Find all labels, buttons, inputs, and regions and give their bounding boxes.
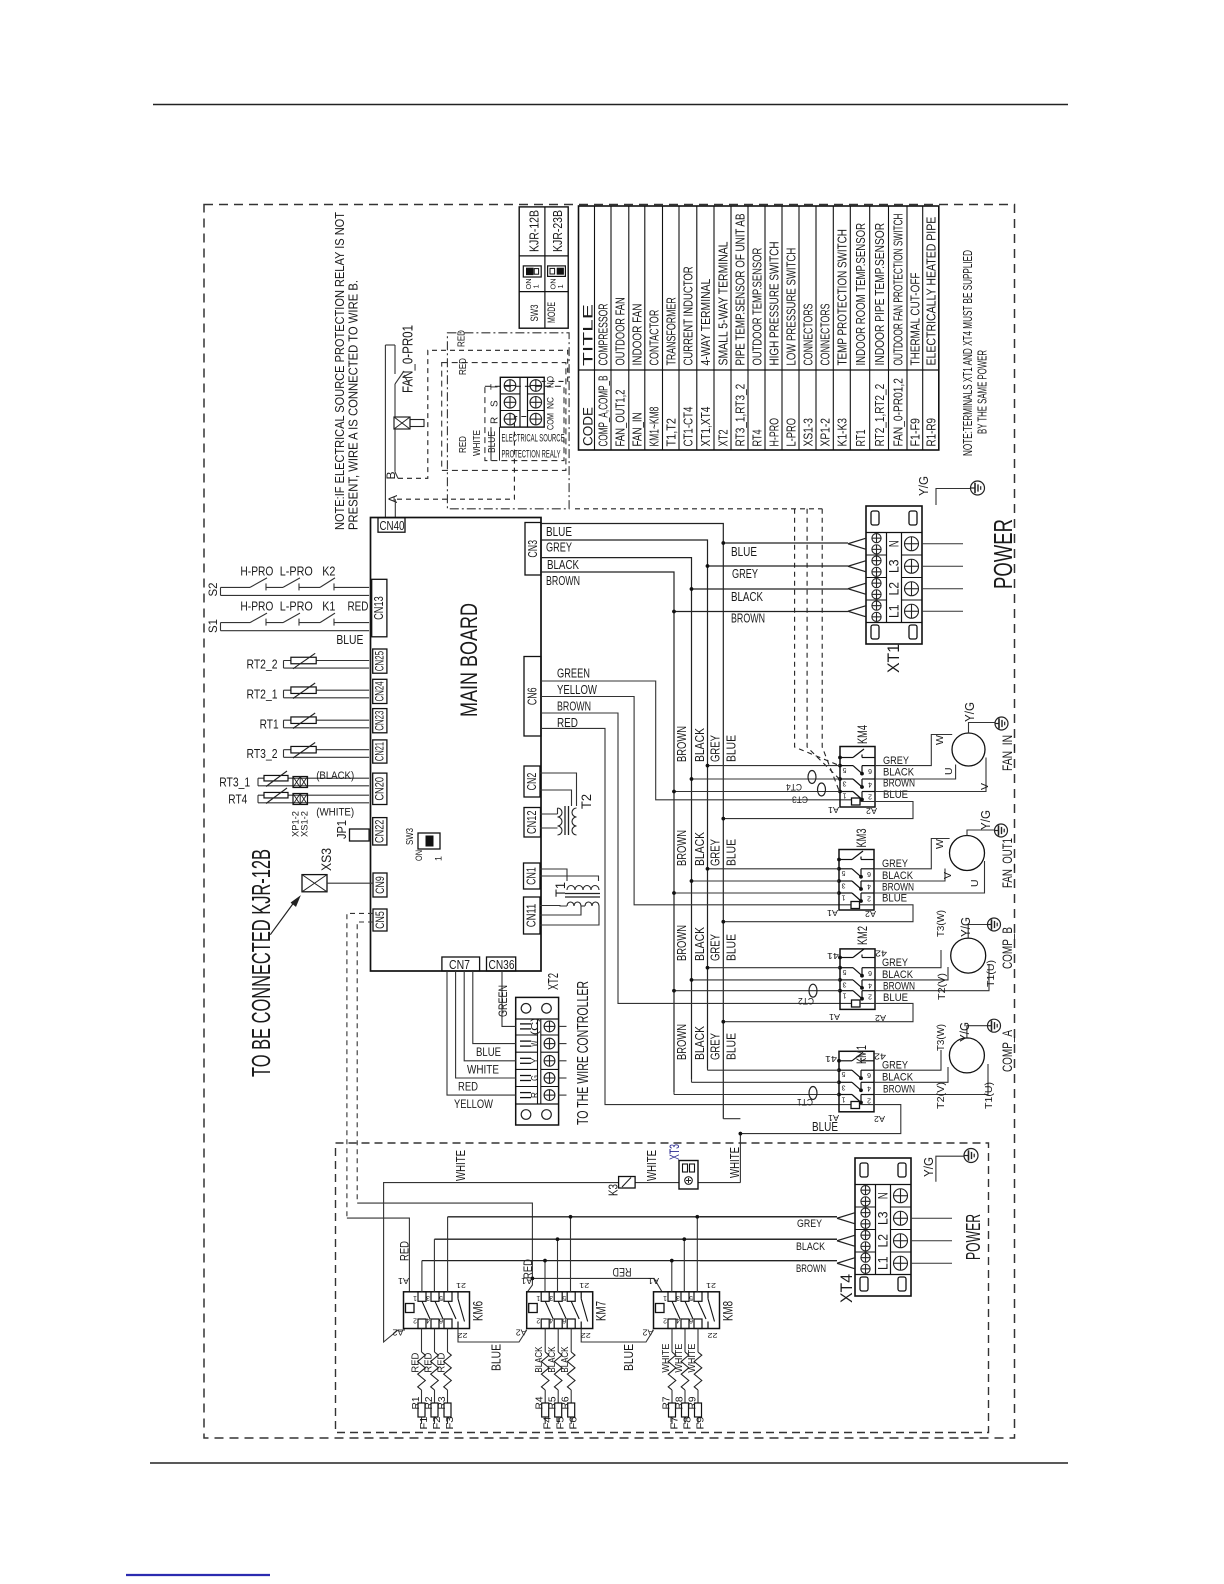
svg-text:2: 2 [868,993,872,1000]
svg-text:F7: F7 [670,1416,681,1429]
wire BROWN bus to KM1 with CT1 [674,1092,839,1094]
wire RED from CN6 to KM1 coil [541,728,851,1104]
temperature switch K3 [607,1177,636,1197]
svg-text:WHITE: WHITE [673,1344,685,1373]
FAN_IN earth symbol [995,717,1008,730]
svg-text:21: 21 [579,1281,589,1290]
label COMP_A [1000,1030,1015,1072]
svg-text:RED: RED [523,1259,535,1279]
protection switch chain S2 (H-PRO L-PRO K2) [206,565,369,597]
svg-text:SW3: SW3 [405,828,416,845]
connector CN25 [373,649,387,673]
heater resistor R2 with fuse F2 [422,1329,443,1430]
svg-text:CURRENT INDUCTOR: CURRENT INDUCTOR [682,266,696,365]
KM4 A2 return wire to BLUE bus [723,802,913,819]
svg-text:TITLE: TITLE [580,304,595,366]
svg-text:A2: A2 [392,1328,404,1337]
svg-text:RED: RED [456,330,468,347]
wire BLACK bus to KM3 [692,880,840,882]
svg-text:F2: F2 [432,1416,443,1429]
connector CN6 [524,657,541,737]
electrical source protection relay dashed enclosure [485,386,564,460]
svg-text:CN20: CN20 [375,777,387,801]
svg-text:2: 2 [536,1317,540,1324]
KM2 aux terminal labels 41 42 [826,949,887,961]
label FAN_0-PR01 [401,325,417,393]
outer dashed frame of schematic [204,205,1015,1439]
fan motor FAN_OUT1 [950,836,985,871]
rail RED to KM6 A1 [347,1218,410,1292]
svg-text:ELECTRICAL SOURCE: ELECTRICAL SOURCE [502,433,565,445]
KM2 terminal labels A1 A2 [828,1012,886,1022]
svg-text:BLUE: BLUE [476,1047,501,1059]
svg-text:RT3_1,RT3_2: RT3_1,RT3_2 [733,384,747,447]
svg-text:CONTACTOR: CONTACTOR [647,310,661,366]
fan motor FAN_IN [952,733,985,766]
svg-text:CN11: CN11 [525,904,539,928]
svg-text:WHITE: WHITE [660,1344,672,1373]
page top rule [153,104,1068,106]
heater resistor R3 with fuse F3 [435,1329,456,1430]
svg-text:(BLACK): (BLACK) [316,770,354,782]
svg-text:BLUE: BLUE [883,789,908,801]
KM3 output labels GREY BLACK BROWN BLUE [882,858,914,905]
svg-text:BLACK: BLACK [546,1347,558,1373]
current inductor CT4 [786,771,816,793]
svg-text:CN13: CN13 [372,596,386,620]
svg-text:PROTECTION REALY: PROTECTION REALY [502,449,561,461]
svg-text:BLUE: BLUE [812,1120,838,1134]
svg-text:(WHITE): (WHITE) [316,807,354,819]
svg-text:XT4: XT4 [837,1274,856,1303]
svg-text:FAN_0-PR01,2: FAN_0-PR01,2 [892,378,906,446]
wire BROWN bus to KM2 with CT2 [674,990,840,992]
heater resistor R9 with fuse F9 [686,1329,707,1430]
svg-text:S1: S1 [206,619,220,633]
svg-text:BLACK: BLACK [692,1026,707,1060]
svg-text:RED: RED [458,1082,478,1094]
heater resistor R8 with fuse F8 [673,1329,694,1430]
svg-text:CN1: CN1 [525,867,539,885]
svg-text:INDOOR FAN: INDOOR FAN [631,304,645,366]
contactor KM3 [838,828,874,910]
svg-text:WHITE: WHITE [467,1065,499,1077]
svg-text:R7: R7 [662,1396,673,1409]
contactor KM6 [392,1276,486,1340]
svg-text:GREY: GREY [708,839,723,866]
svg-text:A1: A1 [826,908,838,917]
svg-text:Y/G: Y/G [958,1022,972,1042]
thermistor RT2_1 [247,683,370,702]
svg-text:H-PRO: H-PRO [240,565,273,579]
svg-text:CN12: CN12 [525,810,539,834]
page bottom rule [150,1462,1068,1464]
connector CN13 [372,579,387,637]
svg-text:5: 5 [689,1294,693,1301]
labels BLUE WHITE RED YELLOW at XT2 [454,1047,501,1111]
vertical bus GREY [707,566,709,1069]
KM3 terminal labels A1 A2 [826,908,876,918]
svg-text:BLACK: BLACK [882,969,914,981]
svg-text:XT2: XT2 [716,429,730,446]
thermistor RT3_1 [219,771,369,790]
svg-text:XT2: XT2 [545,973,562,990]
svg-text:BLACK: BLACK [692,927,707,961]
svg-text:CN3: CN3 [526,540,540,558]
labels WHITE x3 [453,1147,742,1181]
svg-text:BLUE: BLUE [724,1033,739,1060]
svg-text:R4: R4 [535,1396,546,1409]
svg-text:MAIN BOARD: MAIN BOARD [456,603,483,717]
heater resistor R4 with fuse F4 [533,1329,554,1430]
svg-text:4: 4 [549,1317,553,1324]
wire BLACK bus to KM4 with CT4 [692,778,841,780]
dashed wires from CN5 to bottom section [347,913,373,1218]
svg-text:CN7: CN7 [449,958,470,972]
svg-text:BROWN: BROWN [674,726,689,762]
svg-text:A1: A1 [827,805,839,814]
svg-text:A1: A1 [828,1012,840,1021]
COMP_B earth Y/G [959,917,988,938]
svg-text:NO: NO [546,376,557,388]
svg-text:CN5: CN5 [375,911,387,929]
svg-text:ON: ON [414,850,424,861]
svg-text:WHITE: WHITE [644,1150,659,1181]
protection switch chain S1 (H-PRO L-PRO K1) [206,600,369,634]
svg-text:BY THE SAME POWER: BY THE SAME POWER [975,350,990,434]
svg-text:U: U [969,879,981,887]
svg-text:T1(U): T1(U) [985,960,997,987]
svg-text:BLACK: BLACK [547,558,580,572]
heater resistor R6 with fuse F6 [559,1329,580,1430]
label RED at KM8 A1 [613,1265,632,1277]
XT4 earth symbol [964,1149,978,1163]
svg-text:BROWN: BROWN [557,700,591,714]
svg-text:BROWN: BROWN [546,574,580,588]
svg-text:L1: L1 [875,1256,891,1270]
connector CN2 [524,766,540,797]
bus labels set 2 [674,830,739,866]
svg-text:A1: A1 [647,1276,659,1285]
svg-text:YELLOW: YELLOW [454,1099,493,1111]
KM3 A2 return wire to BLUE bus [723,905,913,922]
wire YELLOW CN7 to XT2 [447,971,516,1095]
wire BLACK from CN3 to XT1 L2 and bus [541,558,848,589]
KM2 A2 return wire to BLUE bus [723,1003,913,1021]
wire WHITE CN7 to XT2 [464,971,516,1061]
svg-text:R9: R9 [688,1396,699,1409]
svg-text:A2: A2 [873,1114,885,1123]
svg-text:Y: Y [529,1058,541,1064]
svg-text:RED: RED [348,600,369,614]
FAN_IN wires U V W [875,735,991,792]
svg-text:GREY: GREY [708,934,723,961]
svg-text:RED: RED [557,716,578,730]
svg-text:T3(W): T3(W) [935,1024,947,1051]
svg-text:TEMP PROTECTION SWITCH: TEMP PROTECTION SWITCH [836,229,850,365]
svg-text:A1: A1 [521,1276,533,1285]
svg-text:22: 22 [581,1331,591,1340]
svg-text:4: 4 [426,1317,430,1324]
svg-text:RT2_1,RT2_2: RT2_1,RT2_2 [873,384,887,447]
svg-text:22: 22 [708,1331,718,1340]
svg-text:F8: F8 [683,1416,694,1429]
svg-text:A1: A1 [397,1276,409,1285]
COMP_B wires T3 T2 T1 [875,910,997,1000]
svg-text:GREEN: GREEN [496,985,510,1017]
svg-text:WHITE: WHITE [686,1344,698,1373]
connector CN40 [378,518,405,533]
svg-text:XP1-2: XP1-2 [818,418,832,447]
svg-text:XS3: XS3 [318,848,334,871]
svg-text:BROWN: BROWN [674,830,689,866]
wire BROWN bus to KM3 [674,892,839,894]
svg-text:YELLOW: YELLOW [557,683,597,697]
label XT3 [667,1144,682,1160]
svg-text:RT1: RT1 [260,718,279,732]
svg-text:5: 5 [843,766,847,773]
svg-text:BLUE: BLUE [882,893,907,905]
KM6 pin wires to rails [422,1217,448,1292]
svg-text:41: 41 [826,951,839,960]
svg-text:T1,T2: T1,T2 [665,418,679,447]
relay wire labels RED WHITE BLUE [457,430,498,456]
contactor KM1 [838,1045,874,1112]
svg-text:A2: A2 [874,1013,886,1022]
svg-text:BLACK: BLACK [796,1241,826,1253]
svg-text:N: N [886,540,902,547]
svg-text:5: 5 [843,968,847,975]
svg-text:6: 6 [868,767,872,774]
connector CN9 [373,873,387,897]
connector CN1 [524,863,541,889]
wire GREEN from CN6 to KM4 coil [541,681,852,800]
svg-text:BLUE: BLUE [724,735,739,762]
terminal block XT1 [848,506,963,673]
FAN_OUT1 earth symbol [995,824,1008,837]
connector CN21 [373,740,387,763]
wire GREEN CN36 to XT2 [496,971,516,1026]
svg-text:F1-F9: F1-F9 [909,418,923,447]
svg-text:5: 5 [842,1070,846,1077]
vertical bus BROWN [673,612,675,1093]
svg-text:FAN_IN: FAN_IN [1000,735,1015,771]
SW3 mode select table [519,207,568,328]
svg-text:W: W [934,839,946,849]
svg-text:CN6: CN6 [525,687,539,705]
svg-text:LOW PRESSURE SWITCH: LOW PRESSURE SWITCH [784,248,798,366]
labels RED at KM6 KM7 A1 [400,1241,536,1279]
wire WHITE main run [384,1183,741,1342]
svg-text:MODE: MODE [546,302,558,323]
wire BLACK bus to KM1 [692,1080,840,1083]
footer blue underline [126,1574,270,1576]
XT4 left wires GREY BLACK BROWN [700,1217,837,1261]
KM1 aux terminal labels 41 42 [824,1052,886,1064]
svg-text:KM8: KM8 [720,1301,736,1321]
label XT2 [545,973,562,990]
vertical bus BLACK [691,589,693,1080]
svg-text:CT4: CT4 [786,781,802,792]
thermistor RT4 [228,788,369,807]
svg-text:K1: K1 [322,600,335,614]
svg-text:SMALL 5-WAY TERMINAL: SMALL 5-WAY TERMINAL [716,241,730,365]
svg-text:XS1-2: XS1-2 [300,811,311,837]
svg-text:FAN_OUT1: FAN_OUT1 [1000,838,1015,888]
svg-text:RT1: RT1 [854,429,868,446]
svg-text:BLUE: BLUE [546,525,572,539]
KM2 output labels GREY BLACK BROWN BLUE [882,957,915,1004]
connector CN3 [525,523,541,576]
svg-text:F3: F3 [445,1416,456,1429]
svg-text:2: 2 [413,1317,417,1324]
svg-text:RT3_1: RT3_1 [219,776,250,790]
svg-text:KM3: KM3 [853,828,869,847]
svg-text:XT1,XT4: XT1,XT4 [699,407,713,447]
svg-text:CT2: CT2 [798,995,814,1006]
svg-text:B: B [384,471,398,479]
svg-text:BLACK: BLACK [882,870,914,882]
svg-text:5: 5 [439,1294,443,1301]
svg-text:BLACK: BLACK [559,1347,571,1373]
svg-text:6: 6 [868,969,872,976]
svg-text:RT2_1: RT2_1 [247,688,278,702]
svg-text:KM2: KM2 [854,926,870,945]
svg-text:BROWN: BROWN [796,1263,826,1275]
svg-text:21: 21 [456,1281,466,1290]
svg-text:R: R [529,1092,541,1098]
label POWER at XT4 [963,1214,985,1260]
svg-text:T: T [490,384,501,390]
svg-text:COM: COM [546,413,557,430]
svg-text:GREY: GREY [797,1218,823,1230]
svg-text:1: 1 [842,894,846,901]
svg-text:OUTDOOR FAN: OUTDOOR FAN [614,297,628,365]
svg-text:S2: S2 [206,582,220,596]
dashed option box around relay [442,358,566,471]
contactor KM8 [642,1276,736,1340]
svg-text:WHITE: WHITE [471,430,483,456]
wire BROWN from CN6 to KM2 coil [541,713,851,1003]
svg-text:1: 1 [536,1294,540,1301]
svg-text:T1: T1 [553,882,568,897]
svg-text:HIGH PRESSURE SWITCH: HIGH PRESSURE SWITCH [767,242,781,366]
svg-text:1: 1 [413,1294,417,1301]
relay terminal labels R S T [490,384,501,424]
svg-text:INDOOR ROOM TEMP.SENSOR: INDOOR ROOM TEMP.SENSOR [854,223,868,366]
svg-text:KJR-23B: KJR-23B [551,210,565,252]
heater resistor R1 with fuse F1 [409,1329,430,1430]
wire YELLOW from CN6 to KM3 coil [541,697,851,905]
svg-text:G: G [529,1075,541,1081]
svg-text:Y/G: Y/G [922,1157,936,1177]
svg-text:1: 1 [843,992,847,999]
svg-text:BLACK: BLACK [882,1072,914,1084]
svg-text:3: 3 [426,1294,430,1301]
svg-text:T1(U): T1(U) [983,1082,995,1109]
svg-text:L-PRO: L-PRO [280,600,313,614]
wire BROWN from CN3 to XT1 L1 and bus [541,572,848,612]
power rail BROWN to XT4 [422,1260,837,1262]
svg-text:21: 21 [706,1281,716,1290]
wire A from CN40 [394,499,396,518]
svg-text:T2(V): T2(V) [935,1082,947,1109]
svg-text:K3: K3 [607,1184,621,1196]
svg-text:K2: K2 [322,565,335,579]
dashed wire B to relay NO [398,350,568,478]
wire RED CN7 to XT2 [456,971,516,1078]
svg-text:POWER: POWER [963,1214,985,1260]
transformer T1 [540,869,600,925]
svg-text:1: 1 [842,1096,846,1103]
svg-text:L3: L3 [886,559,902,573]
wire GREY bus to KM3 [708,868,840,870]
svg-text:2: 2 [868,793,872,800]
svg-text:COMP_A,COMP_B: COMP_A,COMP_B [597,376,611,447]
svg-text:V: V [979,783,991,790]
svg-text:T3(W): T3(W) [935,910,947,937]
svg-text:RED: RED [435,1352,447,1372]
svg-text:RED: RED [613,1265,632,1277]
svg-text:SW3: SW3 [529,305,541,322]
FAN_OUT1 wires W V U [874,839,985,894]
svg-text:W: W [934,735,946,745]
svg-text:CODE: CODE [580,407,595,446]
relay terminal labels COM NC NO [546,376,557,430]
svg-text:F1: F1 [419,1416,430,1429]
svg-text:3: 3 [843,780,847,787]
dip switch SW3 position KJR-23B [548,266,566,290]
svg-text:22: 22 [458,1331,468,1340]
KM4 terminal labels A1 A2 [827,805,877,815]
svg-text:BROWN: BROWN [674,925,689,961]
label (BLACK) [316,770,354,782]
arrow to XS3 [270,897,299,935]
svg-text:WHITE: WHITE [453,1150,468,1181]
svg-text:BLUE: BLUE [621,1344,636,1371]
label BLUE at CN13 [336,633,363,647]
svg-text:FAN_OUT1,2: FAN_OUT1,2 [614,389,628,446]
svg-text:1: 1 [434,856,444,861]
svg-text:CN24: CN24 [375,681,387,702]
label ELECTRICAL SOURCE PROTECTION REALY [502,433,565,461]
wire GREY bus to KM2 [708,967,841,969]
node B [384,471,398,479]
svg-text:6: 6 [867,870,871,877]
terminal XT3 [679,1161,698,1190]
svg-text:WHITE: WHITE [727,1147,742,1178]
svg-text:GREEN: GREEN [557,667,590,681]
svg-text:U: U [943,767,955,775]
note text: terminals XT1 and XT4 same power [960,250,990,456]
COMP_A earth Y/G [958,1022,988,1042]
svg-text:6: 6 [689,1317,693,1324]
svg-text:H-PRO: H-PRO [240,600,273,614]
svg-text:A: A [386,495,400,503]
svg-text:N: N [875,1192,891,1199]
labels BLUE GREY BLACK BROWN at CN3 [546,525,580,588]
current inductor CT2 [798,984,817,1006]
FAN_IN earth Y/G [963,702,995,733]
power rail GREY to XT4 [448,1216,837,1218]
svg-text:CN9: CN9 [375,876,387,894]
svg-text:BLUE: BLUE [486,431,498,453]
outdoor fan protector FAN_0-PR01 [394,345,424,478]
svg-text:4: 4 [867,883,871,890]
bus labels set 1 [674,726,739,762]
svg-text:2: 2 [867,1097,871,1104]
svg-text:1: 1 [663,1294,667,1301]
